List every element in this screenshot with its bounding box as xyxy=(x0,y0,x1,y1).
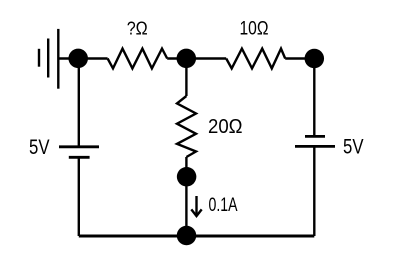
svg-text:?Ω: ?Ω xyxy=(127,19,148,39)
svg-text:5V: 5V xyxy=(29,136,50,159)
svg-text:0.1A: 0.1A xyxy=(209,195,238,216)
svg-text:20Ω: 20Ω xyxy=(208,115,243,138)
svg-text:5V: 5V xyxy=(343,136,364,159)
svg-text:10Ω: 10Ω xyxy=(240,18,269,40)
